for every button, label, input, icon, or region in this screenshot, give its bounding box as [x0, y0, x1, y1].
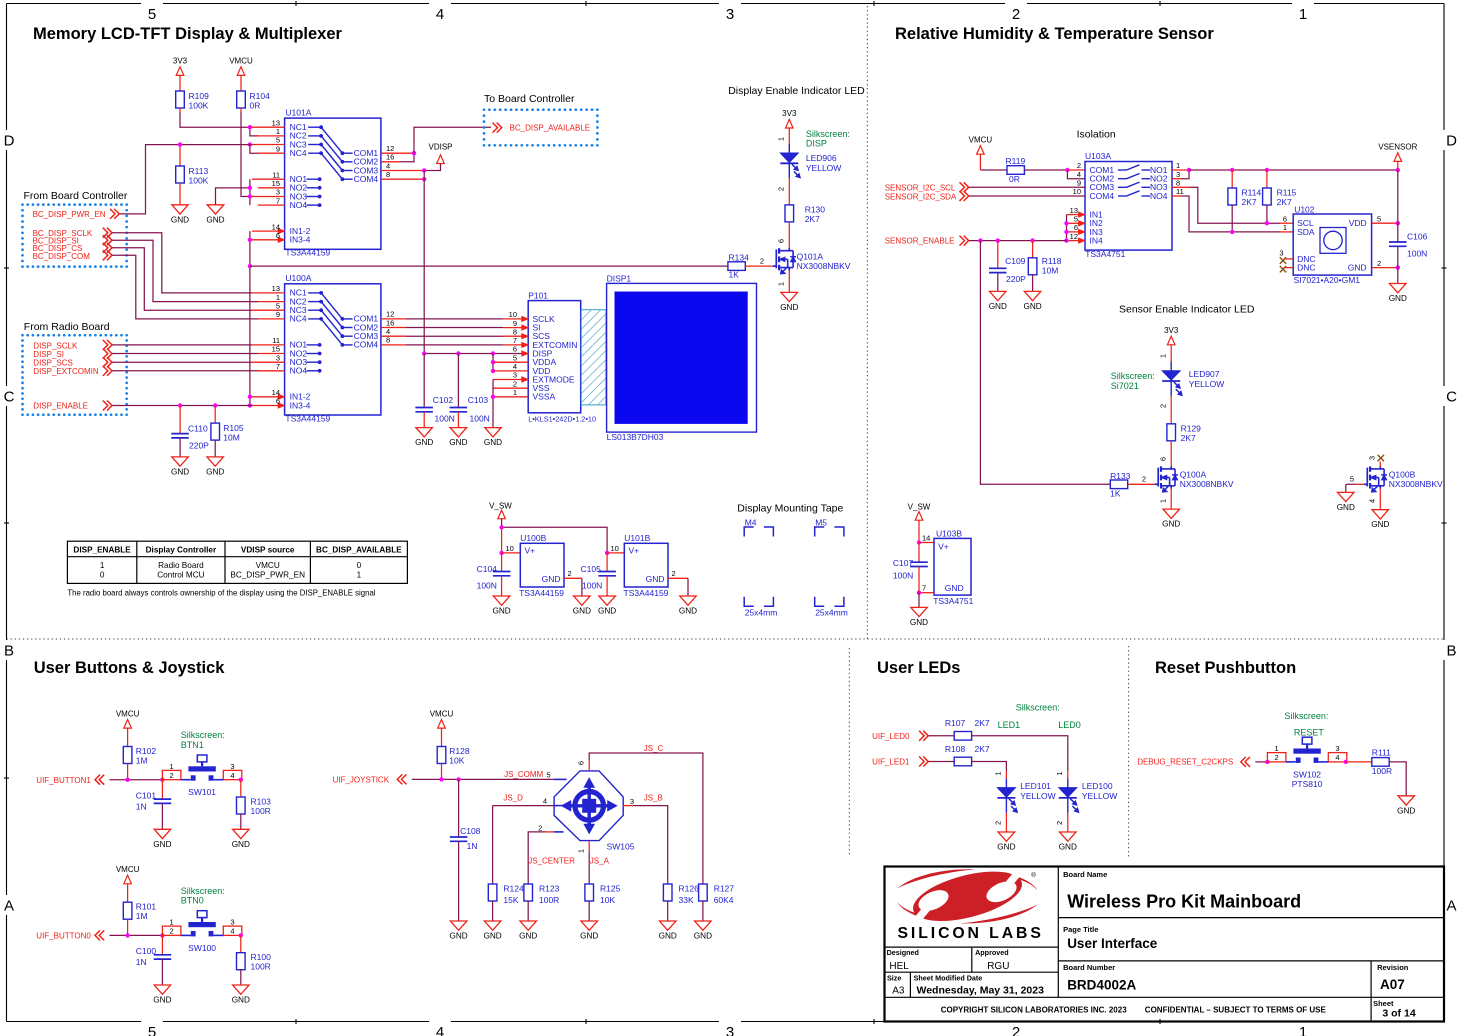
- svg-text:GND: GND: [492, 607, 510, 616]
- ground under R126: [660, 921, 677, 930]
- switch supply U103B TS3A4751: [934, 538, 971, 595]
- svg-text:GND: GND: [415, 438, 433, 447]
- svg-text:5: 5: [276, 301, 280, 310]
- wire R113 to GND: [179, 183, 181, 205]
- svg-text:Radio Board: Radio Board: [158, 561, 204, 570]
- svg-text:COM4: COM4: [354, 174, 379, 184]
- svg-text:BTN0: BTN0: [181, 896, 204, 906]
- ground under C102: [416, 428, 433, 437]
- svg-text:GND: GND: [1389, 294, 1407, 303]
- ground under R125: [581, 921, 598, 930]
- svg-text:0: 0: [100, 571, 105, 580]
- svg-text:1: 1: [100, 561, 105, 570]
- wire UIF_LED0 to R107: [929, 735, 955, 737]
- svg-text:Silkscreen:: Silkscreen:: [1111, 371, 1155, 381]
- Q100B drain pin 3 no-connect: [1379, 462, 1381, 468]
- U101A pin 5 NC3 stub: [252, 144, 285, 146]
- off-page chevron SENSOR_I2C_SCL: [960, 182, 965, 192]
- U100A pin 15 NO2 stub: [258, 353, 285, 355]
- svg-text:YELLOW: YELLOW: [1082, 791, 1117, 801]
- svg-text:1N: 1N: [136, 957, 147, 967]
- svg-text:4: 4: [386, 161, 390, 170]
- svg-text:2: 2: [1158, 404, 1167, 408]
- wire C106 to GND: [1397, 268, 1399, 284]
- svg-text:4: 4: [386, 327, 390, 336]
- svg-text:Q100B: Q100B: [1389, 469, 1416, 479]
- svg-text:A: A: [4, 898, 14, 915]
- svg-text:8: 8: [1176, 179, 1180, 188]
- wire R102 to button net: [127, 764, 129, 780]
- svg-text:From Board Controller: From Board Controller: [24, 190, 128, 202]
- ground under R111: [1398, 796, 1415, 805]
- svg-text:C106: C106: [1407, 231, 1428, 241]
- off-page chevron DISP_SCS: [103, 357, 108, 367]
- resistor R114 2K7 pull-up: [1231, 170, 1233, 188]
- svg-text:6: 6: [276, 231, 280, 240]
- SW105 navigation glyph: [575, 792, 604, 821]
- svg-text:VMCU: VMCU: [116, 709, 140, 718]
- resistor R105 10M: [214, 406, 216, 424]
- capacitor C104 100N: [501, 553, 503, 572]
- svg-text:Approved: Approved: [975, 948, 1009, 957]
- capacitor C100 1N: [161, 935, 163, 954]
- wire VDISP to COM3: [424, 164, 440, 171]
- svg-text:GND: GND: [997, 843, 1015, 852]
- svg-text:R105: R105: [223, 423, 244, 433]
- svg-text:Silkscreen:: Silkscreen:: [181, 730, 225, 740]
- U100A pin 12 COM1 wire to P101 SCLK: [381, 318, 406, 320]
- svg-text:GND: GND: [646, 574, 665, 584]
- svg-text:2: 2: [1142, 475, 1146, 484]
- resistor R124 15K: [488, 884, 497, 901]
- U103A NO1 stub: [1172, 169, 1189, 171]
- pushbutton SW102 PTS810: [1267, 753, 1286, 762]
- ground under C109: [990, 291, 1007, 300]
- svg-text:Board Number: Board Number: [1063, 963, 1115, 972]
- svg-text:NX3008NBKV: NX3008NBKV: [1180, 479, 1234, 489]
- wire EXTMODE VSS VSSA to GND: [492, 380, 494, 428]
- U101A pin 16 COM2 stub: [381, 161, 400, 163]
- svg-text:NC4: NC4: [290, 148, 307, 158]
- svg-text:Sheet: Sheet: [1373, 999, 1394, 1008]
- svg-text:GND: GND: [989, 302, 1007, 311]
- wire R101 to button net: [127, 919, 129, 935]
- transistor Q100A NX3008NBKV: [1157, 468, 1159, 487]
- svg-text:Si7021: Si7021: [1111, 381, 1139, 391]
- ground under C110: [172, 457, 189, 466]
- svg-text:2: 2: [777, 187, 786, 191]
- svg-text:GND: GND: [910, 618, 928, 627]
- svg-text:LED907: LED907: [1189, 369, 1220, 379]
- svg-text:100R: 100R: [1372, 766, 1392, 776]
- svg-text:TS3A44159: TS3A44159: [285, 413, 330, 423]
- svg-text:10: 10: [1073, 187, 1081, 196]
- ground under U101B: [680, 596, 696, 605]
- ground under C105: [599, 596, 616, 605]
- svg-text:C107: C107: [893, 558, 914, 568]
- svg-text:11: 11: [1176, 187, 1184, 196]
- table DISP_ENABLE ownership: [67, 541, 407, 583]
- wire IN1-IN4 tie: [1066, 215, 1068, 241]
- svg-text:3: 3: [1279, 249, 1283, 258]
- U101A pin 9 NC4 stub: [258, 152, 285, 154]
- svg-text:2: 2: [1012, 1024, 1020, 1036]
- svg-text:R108: R108: [945, 744, 966, 754]
- svg-text:JS_C: JS_C: [644, 744, 664, 753]
- svg-text:100K: 100K: [189, 176, 209, 186]
- svg-text:GND: GND: [1162, 520, 1180, 529]
- svg-text:GND: GND: [780, 303, 798, 312]
- wire R129 to Q100A drain: [1170, 441, 1172, 467]
- svg-text:GND: GND: [232, 996, 250, 1005]
- svg-text:BC_DISP_PWR_EN: BC_DISP_PWR_EN: [230, 571, 305, 580]
- svg-text:6: 6: [513, 345, 517, 354]
- resistor R127 60K4: [699, 884, 708, 901]
- multiplexer U101A TS3A44159: [285, 118, 381, 249]
- P101 pin 3 EXTMODE stub: [493, 379, 522, 381]
- svg-text:3: 3: [1335, 744, 1339, 753]
- capacitor C109 220P: [997, 241, 999, 269]
- wire Q100A source to GND: [1170, 489, 1172, 509]
- svg-text:COM4: COM4: [354, 340, 379, 350]
- ground under Q100A: [1163, 509, 1180, 518]
- svg-text:15: 15: [272, 179, 280, 188]
- svg-text:GND: GND: [1348, 263, 1367, 273]
- svg-text:R128: R128: [449, 746, 470, 756]
- svg-text:R100: R100: [251, 952, 272, 962]
- svg-text:SENSOR_I2C_SDA: SENSOR_I2C_SDA: [885, 193, 957, 202]
- resistor R107 2K7: [954, 732, 971, 741]
- svg-text:U100B: U100B: [520, 533, 546, 543]
- LED LED100 YELLOW: [1067, 779, 1069, 813]
- ground under R127: [695, 921, 712, 930]
- svg-text:R130: R130: [805, 205, 826, 215]
- wire UIF_BUTTON1 to SW101: [110, 779, 163, 781]
- U102 GND pin 2 stub: [1372, 267, 1398, 269]
- resistor R129 2K7: [1167, 424, 1176, 441]
- svg-text:Silkscreen:: Silkscreen:: [181, 886, 225, 896]
- svg-text:6: 6: [1074, 223, 1078, 232]
- svg-text:UIF_LED0: UIF_LED0: [872, 732, 910, 741]
- P101 pin 8 SCS stub: [503, 335, 522, 337]
- svg-text:P101: P101: [528, 290, 548, 300]
- svg-text:2: 2: [1275, 753, 1279, 762]
- resistor R119 0R: [1007, 166, 1024, 175]
- P101 pin 5 VDDA stub: [493, 361, 528, 363]
- svg-text:U101A: U101A: [285, 107, 311, 117]
- wire V_SW to U103B: [918, 520, 920, 542]
- svg-text:LED100: LED100: [1082, 781, 1113, 791]
- svg-text:B: B: [1446, 643, 1456, 660]
- U101B GND pin 2: [668, 577, 688, 579]
- svg-text:C: C: [1446, 389, 1457, 406]
- U101A pin 15 NO2 stub: [258, 187, 285, 189]
- svg-text:1: 1: [1158, 354, 1167, 358]
- wire R107 to LED100: [972, 736, 1068, 771]
- section separator horizontal: [7, 638, 1445, 640]
- wire R134 to Q101A gate: [745, 265, 773, 267]
- svg-text:RGU: RGU: [987, 961, 1009, 972]
- svg-text:GND: GND: [598, 607, 616, 616]
- svg-text:1: 1: [777, 137, 786, 141]
- wire DISP_SI to U100A NO2: [112, 353, 258, 355]
- svg-text:SDA: SDA: [1297, 227, 1315, 237]
- svg-text:220P: 220P: [1006, 274, 1026, 284]
- ground under R103: [233, 829, 250, 838]
- svg-text:C104: C104: [477, 564, 498, 574]
- svg-text:3: 3: [630, 797, 634, 806]
- svg-text:5: 5: [276, 136, 280, 145]
- svg-text:2K7: 2K7: [1242, 197, 1257, 207]
- wire NO2 to ground: [216, 188, 250, 205]
- capacitor C108 1N: [458, 779, 460, 837]
- ground under C107: [911, 607, 927, 616]
- off-page chevron DISP_SCLK: [103, 340, 108, 350]
- svg-text:GND: GND: [1397, 806, 1415, 815]
- svg-text:C101: C101: [136, 791, 157, 801]
- svg-text:2: 2: [1077, 161, 1081, 170]
- svg-text:BRD4002A: BRD4002A: [1067, 978, 1136, 993]
- svg-text:JS_A: JS_A: [590, 857, 610, 866]
- U101A pin 4 COM3 stub: [381, 170, 424, 172]
- svg-text:COM4: COM4: [1090, 191, 1115, 201]
- svg-text:CONFIDENTIAL – SUBJECT TO TERM: CONFIDENTIAL – SUBJECT TO TERMS OF USE: [1145, 1006, 1327, 1015]
- svg-text:2: 2: [1012, 6, 1020, 23]
- switch supply U100B TS3A44159: [520, 543, 564, 587]
- svg-text:GND: GND: [1023, 302, 1041, 311]
- svg-text:Memory LCD-TFT Display & Multi: Memory LCD-TFT Display & Multiplexer: [33, 25, 343, 43]
- svg-text:TS3A44159: TS3A44159: [519, 588, 564, 598]
- ground under R113: [172, 205, 188, 214]
- svg-text:BC_DISP_AVAILABLE: BC_DISP_AVAILABLE: [316, 545, 402, 554]
- svg-text:PTS810: PTS810: [1292, 779, 1323, 789]
- svg-text:8: 8: [386, 170, 390, 179]
- wire 3V3 to R109: [179, 75, 181, 91]
- svg-text:R111: R111: [1372, 748, 1391, 758]
- svg-text:Wireless Pro Kit Mainboard: Wireless Pro Kit Mainboard: [1067, 892, 1301, 912]
- wire SW101 pin4 to R103: [239, 778, 243, 782]
- svg-text:1: 1: [1283, 223, 1287, 232]
- svg-text:15K: 15K: [503, 895, 518, 905]
- U103B V+ pin 14: [919, 542, 934, 544]
- resistor R108 2K7: [954, 757, 971, 766]
- svg-text:1: 1: [777, 282, 786, 286]
- switch U103A TS3A4751: [1085, 162, 1172, 251]
- svg-text:7: 7: [922, 584, 926, 593]
- resistor R128 10K: [437, 747, 446, 764]
- ground under R124: [484, 921, 501, 930]
- svg-text:Board Name: Board Name: [1063, 870, 1107, 879]
- svg-text:C: C: [4, 389, 15, 406]
- svg-text:14: 14: [922, 534, 930, 543]
- svg-text:L•KLS1•242D•1.2•10: L•KLS1•242D•1.2•10: [528, 415, 596, 424]
- switch supply U101B TS3A44159: [624, 543, 668, 587]
- mounting tape M4: [744, 527, 754, 537]
- wire LED907 to R129: [1170, 396, 1172, 424]
- svg-text:C100: C100: [136, 946, 157, 956]
- off-page chevron BC_DISP_COM: [103, 250, 108, 260]
- wire VSENSOR rail: [1189, 169, 1398, 171]
- wire JS_D to R124: [492, 806, 494, 884]
- svg-text:GND: GND: [206, 215, 224, 224]
- svg-text:9: 9: [1077, 179, 1081, 188]
- svg-text:GND: GND: [519, 932, 537, 941]
- off-page chevron DISP_SI: [103, 349, 108, 359]
- svg-text:BC_DISP_AVAILABLE: BC_DISP_AVAILABLE: [510, 124, 591, 133]
- svg-text:VMCU: VMCU: [116, 865, 140, 874]
- SW105 pin5 blue lead: [554, 778, 567, 780]
- U103A NO2 stub tie to NO1: [1172, 178, 1181, 180]
- svg-text:NO4: NO4: [290, 366, 308, 376]
- capacitor C107 100N: [918, 543, 920, 563]
- U101A pin 6 IN3-4 stub: [252, 239, 279, 241]
- U100A pin 14 IN1-2 stub: [252, 396, 279, 398]
- svg-text:5: 5: [546, 771, 550, 780]
- svg-text:VDD: VDD: [1349, 218, 1367, 228]
- wire SENSOR_I2C_SDA to COM4: [969, 195, 1085, 197]
- svg-text:COPYRIGHT SILICON LABORATORIES: COPYRIGHT SILICON LABORATORIES INC. 2023: [941, 1006, 1128, 1015]
- svg-text:YELLOW: YELLOW: [806, 163, 841, 173]
- wire BC_DISP_SI to U100A NC2: [112, 240, 258, 301]
- svg-text:GND: GND: [206, 467, 224, 476]
- svg-text:2: 2: [170, 927, 174, 936]
- off-page chevron DISP_EXTCOMIN: [103, 366, 108, 376]
- ground under C101: [154, 829, 171, 838]
- svg-text:2: 2: [760, 256, 764, 265]
- svg-text:V+: V+: [938, 542, 949, 552]
- wire SENSOR_ENABLE down to R133: [980, 241, 1110, 485]
- svg-text:SW102: SW102: [1293, 769, 1321, 779]
- svg-text:1: 1: [170, 918, 174, 927]
- wire DISP_ENABLE to R134: [250, 265, 728, 267]
- resistor R109 100K: [176, 91, 185, 108]
- wire NC3-NC4 pair tie: [250, 145, 258, 154]
- off-page chevron BC_DISP_AVAILABLE: [493, 123, 498, 133]
- U102 inner sensor glyph: [1320, 228, 1346, 254]
- wire LED101 to GND: [1005, 813, 1007, 832]
- svg-text:R126: R126: [679, 884, 700, 894]
- off-page chevron DISP_ENABLE: [103, 401, 108, 411]
- svg-text:3: 3: [726, 1024, 734, 1036]
- resistor R103 100R: [237, 797, 246, 814]
- svg-text:100R: 100R: [251, 806, 271, 816]
- resistor R134 1K: [728, 262, 745, 271]
- wire COM2 tie: [1067, 170, 1085, 179]
- svg-text:2: 2: [538, 824, 542, 833]
- svg-text:DISP_SI: DISP_SI: [33, 350, 64, 359]
- svg-text:Display Enable Indicator LED: Display Enable Indicator LED: [728, 85, 865, 97]
- off-page chevron DEBUG_RESET_C2CKPS: [1241, 757, 1246, 767]
- U100A pin 9 NC4 stub: [258, 318, 285, 320]
- wire R100 to GND: [240, 970, 242, 985]
- svg-text:4: 4: [1367, 499, 1376, 503]
- wire R128 to joystick common: [441, 764, 443, 780]
- zone boundary ticks: [295, 1, 297, 6]
- svg-text:2K7: 2K7: [1277, 197, 1292, 207]
- svg-text:1: 1: [1275, 744, 1279, 753]
- svg-text:Wednesday, May 31, 2023: Wednesday, May 31, 2023: [917, 984, 1045, 996]
- svg-text:33K: 33K: [679, 895, 694, 905]
- P101 pin 2 VSS stub: [493, 387, 528, 389]
- svg-text:UIF_BUTTON1: UIF_BUTTON1: [36, 776, 91, 785]
- svg-text:GND: GND: [580, 932, 598, 941]
- svg-text:R123: R123: [539, 884, 560, 894]
- svg-text:BTN1: BTN1: [181, 740, 204, 750]
- P101 pin 4 VDD stub: [493, 370, 528, 372]
- resistor R113 100K: [179, 145, 181, 166]
- svg-text:220P: 220P: [189, 441, 209, 451]
- svg-text:From Radio Board: From Radio Board: [24, 321, 110, 333]
- sheet border frame: [7, 3, 142, 5]
- svg-text:3: 3: [513, 371, 517, 380]
- svg-text:100R: 100R: [251, 962, 271, 972]
- svg-text:7: 7: [276, 196, 280, 205]
- sensor U102 SI7021-A20-GM1: [1293, 214, 1371, 275]
- svg-text:4: 4: [230, 927, 234, 936]
- section separator vertical between display and sensor areas: [866, 6, 868, 639]
- section separator vertical left of Reset Pushbutton: [1128, 646, 1130, 857]
- svg-text:BC_DISP_COM: BC_DISP_COM: [33, 252, 91, 261]
- wire VMCU to R104: [240, 75, 242, 91]
- wire R103 to GND: [240, 814, 242, 829]
- svg-text:1: 1: [1176, 161, 1180, 170]
- svg-text:SI7021•A20•GM1: SI7021•A20•GM1: [1294, 275, 1361, 285]
- svg-text:D: D: [4, 133, 15, 150]
- svg-text:IN4: IN4: [1090, 236, 1104, 246]
- svg-text:JS_B: JS_B: [644, 794, 663, 803]
- svg-text:Display Mounting Tape: Display Mounting Tape: [737, 502, 843, 514]
- svg-text:2: 2: [170, 771, 174, 780]
- wire SENSOR_I2C_SCL to COM3: [969, 186, 1085, 188]
- svg-text:R103: R103: [251, 797, 272, 807]
- wire NO1-NO4 tie vertical: [249, 179, 251, 205]
- svg-text:Sheet Modified Date: Sheet Modified Date: [914, 973, 983, 982]
- svg-text:YELLOW: YELLOW: [1020, 791, 1055, 801]
- svg-text:1: 1: [1299, 1024, 1307, 1036]
- wire C110 to GND: [179, 438, 181, 457]
- resistor R104 0R: [237, 91, 246, 108]
- wire V_SW trunk: [501, 519, 503, 528]
- svg-text:LED0: LED0: [1058, 720, 1081, 730]
- svg-text:GND: GND: [449, 438, 467, 447]
- pushbutton SW101: [162, 770, 181, 779]
- svg-text:C105: C105: [581, 564, 602, 574]
- svg-text:GND: GND: [483, 932, 501, 941]
- svg-text:GND: GND: [484, 438, 502, 447]
- wire R123 to GND: [527, 901, 529, 921]
- svg-text:C110: C110: [188, 423, 208, 433]
- svg-text:4: 4: [230, 771, 234, 780]
- svg-text:3V3: 3V3: [1164, 326, 1179, 335]
- ground under R105: [207, 457, 224, 466]
- off-page chevron BC_DISP_SI: [103, 235, 108, 245]
- svg-text:1: 1: [1299, 6, 1307, 23]
- svg-text:VMCU: VMCU: [430, 709, 454, 718]
- wire 3V3 to LED906 anode: [788, 128, 790, 145]
- wire R127 to GND: [702, 901, 704, 921]
- svg-text:15: 15: [272, 345, 280, 354]
- svg-text:R118: R118: [1042, 256, 1062, 266]
- U100A pin 1 NC2 stub: [258, 301, 285, 303]
- U100B V+ supply pin: [502, 552, 521, 554]
- svg-text:2: 2: [672, 569, 676, 578]
- wire SENSOR_ENABLE: [969, 240, 1067, 242]
- off-page chevron UIF_BUTTON1: [95, 775, 100, 785]
- P101 pin 9 SI stub: [503, 327, 522, 329]
- svg-text:25x4mm: 25x4mm: [745, 608, 778, 618]
- svg-text:R114: R114: [1242, 188, 1262, 198]
- LED LED906 YELLOW: [788, 144, 790, 178]
